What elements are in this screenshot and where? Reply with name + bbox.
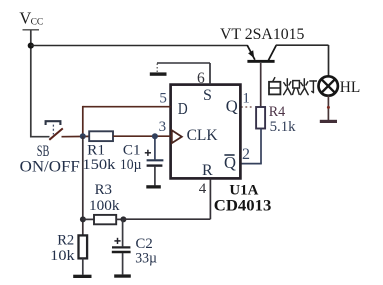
svg-text:HL: HL: [340, 79, 361, 96]
svg-text:U1A: U1A: [229, 183, 258, 199]
svg-text:CC: CC: [31, 18, 44, 28]
svg-text:100k: 100k: [89, 198, 120, 214]
svg-text:R3: R3: [95, 182, 112, 198]
svg-text:5: 5: [159, 91, 167, 107]
svg-text:R1: R1: [87, 143, 105, 159]
svg-text:R: R: [202, 162, 213, 179]
svg-text:CD4013: CD4013: [214, 198, 271, 215]
svg-text:C1: C1: [123, 143, 141, 159]
svg-text:ON/OFF: ON/OFF: [20, 158, 81, 175]
svg-text:150k: 150k: [82, 157, 116, 173]
svg-text:3: 3: [159, 119, 167, 135]
svg-text:1: 1: [242, 90, 250, 106]
svg-text:4: 4: [199, 181, 207, 197]
svg-text:R2: R2: [57, 233, 74, 249]
svg-text:VT 2SA1015: VT 2SA1015: [220, 26, 305, 43]
svg-text:CLK: CLK: [187, 127, 219, 144]
svg-text:Q: Q: [226, 97, 238, 116]
svg-text:V: V: [19, 9, 31, 28]
svg-text:33µ: 33µ: [135, 250, 157, 266]
svg-text:2: 2: [242, 146, 250, 163]
svg-text:S: S: [203, 87, 212, 104]
svg-text:10k: 10k: [50, 248, 75, 264]
svg-text:D: D: [178, 99, 188, 118]
svg-text:Q: Q: [224, 153, 236, 172]
svg-text:6: 6: [197, 70, 205, 87]
svg-text:5.1k: 5.1k: [270, 118, 296, 135]
svg-text:10µ: 10µ: [120, 157, 142, 173]
